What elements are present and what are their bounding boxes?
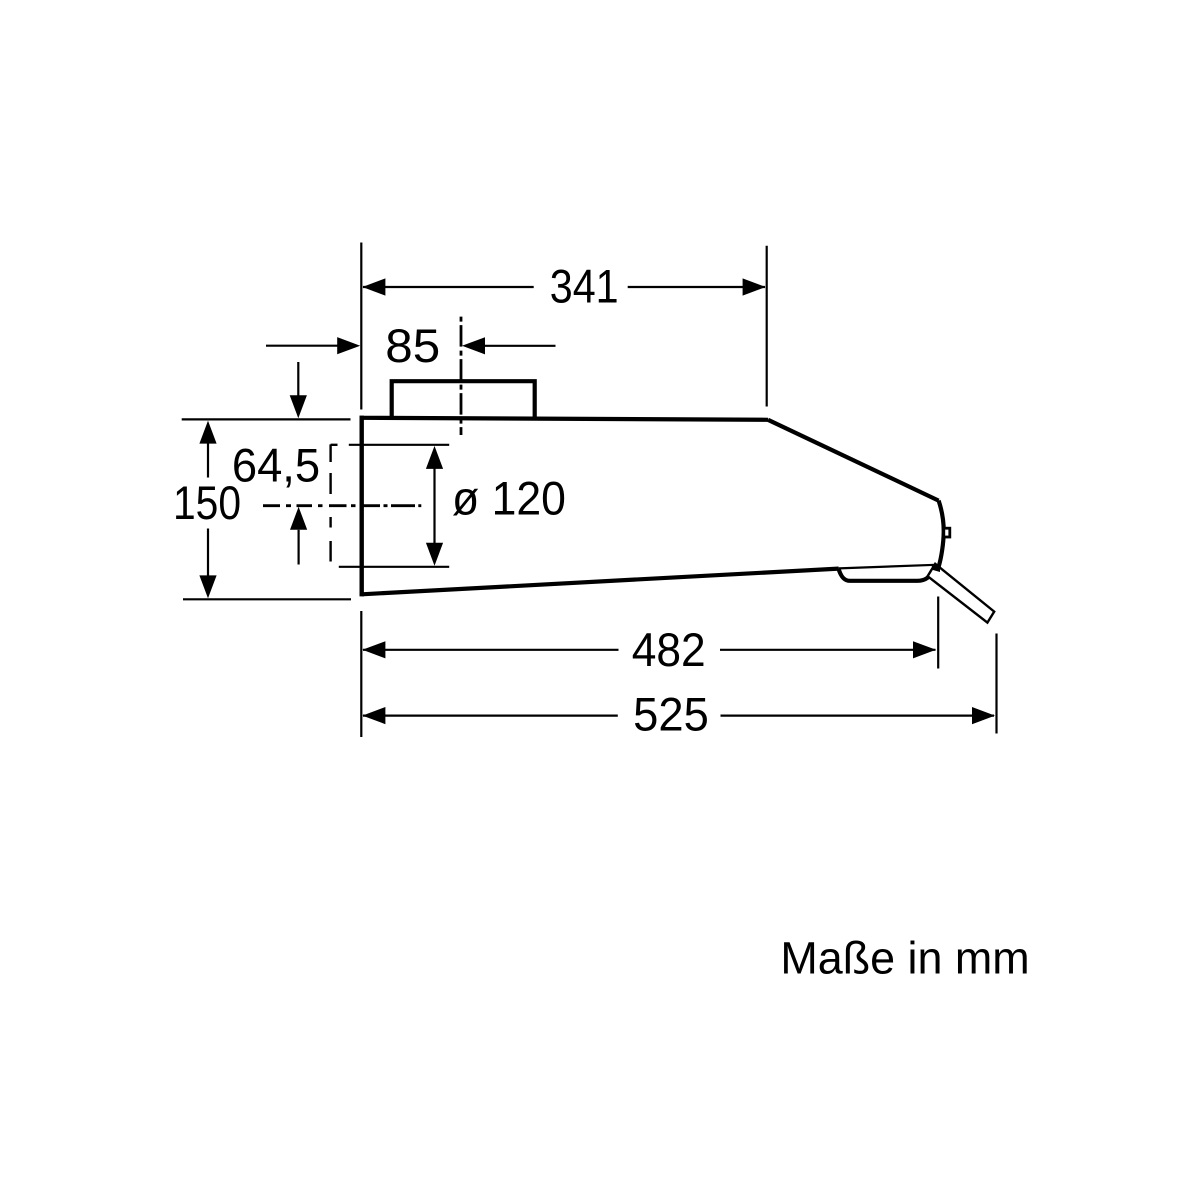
wire dashed hidden duct line vertical bbox=[331, 444, 338, 561]
dimension 341 line bbox=[363, 286, 534, 288]
hood front curved edge bbox=[939, 501, 944, 567]
wire extension line top-left horizontal bbox=[182, 418, 351, 420]
wire extension line right (341) bbox=[766, 246, 768, 407]
svg-text:ø 120: ø 120 bbox=[452, 472, 566, 524]
handle bar bbox=[928, 564, 995, 623]
hood bottom edge bbox=[362, 569, 839, 595]
dimension 525 line bbox=[363, 714, 618, 716]
hood top slant edge bbox=[768, 420, 939, 501]
dimension 150 line bbox=[207, 444, 209, 478]
svg-text:64,5: 64,5 bbox=[232, 439, 320, 492]
hood recess inner thin line bbox=[839, 565, 936, 569]
dimension dia 120 line bbox=[433, 467, 435, 545]
wire extension line back-edge top bbox=[360, 243, 362, 410]
chimney duct stub bbox=[392, 381, 535, 419]
wire centerline horizontal dash-dot bbox=[263, 504, 421, 507]
wire duct top extent line bbox=[349, 444, 449, 446]
handle junction fill bbox=[931, 564, 940, 572]
hood back edge bbox=[360, 416, 364, 597]
wire extension line bottom-left horizontal bbox=[183, 598, 351, 600]
wire extension line 525 right bbox=[995, 634, 997, 734]
dimension 64,5 arrows bbox=[297, 362, 299, 396]
hood top edge bbox=[360, 418, 768, 420]
wire centerline vertical dash-dot duct axis bbox=[460, 317, 463, 435]
wire extension line below hood left bbox=[360, 611, 362, 737]
svg-text:85: 85 bbox=[385, 320, 440, 373]
wire duct bottom extent line bbox=[339, 566, 449, 568]
dimension 85 arrows bbox=[266, 345, 338, 347]
svg-text:482: 482 bbox=[632, 624, 706, 676]
svg-text:341: 341 bbox=[550, 261, 619, 313]
dimension 482 line bbox=[363, 649, 619, 651]
hood recess groove thick line bbox=[839, 568, 935, 581]
switch knob on front bbox=[944, 528, 950, 537]
svg-text:150: 150 bbox=[173, 477, 241, 529]
svg-text:Maße in mm: Maße in mm bbox=[780, 932, 1029, 983]
svg-text:525: 525 bbox=[633, 688, 709, 741]
wire extension line 482 right bbox=[937, 597, 939, 669]
